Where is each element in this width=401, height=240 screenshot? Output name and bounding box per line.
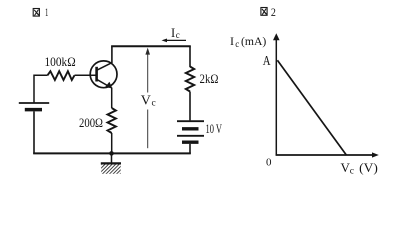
wire from battery+ up and right to 100k resistor [34,75,48,102]
svg-text:c: c [235,39,239,49]
label 図1 [33,9,39,17]
svg-text:c: c [350,167,354,177]
wire: collector up to top rail [111,47,113,64]
svg-text:A: A [263,54,271,69]
svg-text:2: 2 [271,5,276,19]
current arrow Ic [164,39,186,41]
svg-text:V: V [141,93,151,108]
svg-text:(mA): (mA) [241,34,266,48]
svg-text:200Ω: 200Ω [79,116,103,130]
wire: battery down to bottom rail [189,144,191,154]
resistor R1 100kΩ (horizontal zigzag) [48,71,75,80]
voltage arrow Vc (measurement) [147,50,149,93]
label 図2 [261,8,267,16]
load line from A to x-axis [277,60,346,155]
battery E1 (left, single cell) [19,102,49,104]
x-axis Vc [276,154,374,156]
svg-text:I: I [230,34,234,48]
wire: bottom rail [33,152,191,154]
svg-text:100kΩ: 100kΩ [45,54,76,69]
svg-text:c: c [176,30,180,40]
wire: right corner down to 2k resistor [189,46,191,67]
svg-text:2kΩ: 2kΩ [200,72,219,86]
wire: emitter down to 200 ohm resistor [111,88,113,109]
svg-text:1: 1 [45,5,48,19]
y-axis Ic [275,37,277,156]
svg-text:0: 0 [266,156,272,168]
wire: top rail [111,45,191,47]
junction node [109,151,114,156]
resistor R2 200Ω (vertical zigzag) [108,108,116,133]
wire: 200 ohm to bottom rail [111,133,113,154]
resistor R3 2kΩ (vertical zigzag) [186,67,194,92]
wire: resistor to transistor base [75,74,97,76]
ground [111,153,113,162]
battery E2 10V (two cells) [177,120,204,122]
transistor Q1 (NPN) [90,61,117,88]
svg-text:I: I [171,26,175,40]
svg-text:c: c [152,98,156,108]
svg-text:(V): (V) [359,160,378,175]
wire: 2k resistor down to battery [189,92,191,121]
svg-text:10 V: 10 V [206,122,223,136]
wire: battery negative down to bottom rail [33,111,35,153]
